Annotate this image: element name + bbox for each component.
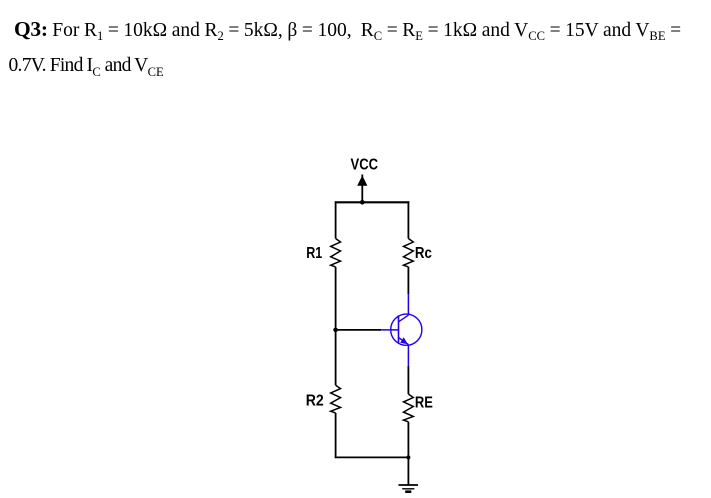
- ground symbol: [399, 485, 419, 492]
- svg-text:Rc: Rc: [415, 245, 432, 262]
- transistor Q1 body circle: [391, 314, 422, 345]
- power VCC arrowhead: [357, 176, 367, 186]
- wire right lower: [407, 422, 409, 458]
- wire bottom bus: [335, 456, 409, 458]
- resistor R2: [331, 385, 341, 413]
- svg-text:R1: R1: [306, 245, 322, 262]
- junction bottom dot: [406, 455, 410, 459]
- svg-text:R2: R2: [306, 392, 324, 409]
- resistor Rc: [404, 239, 414, 267]
- wire base black: [336, 329, 382, 331]
- transistor Q1 emitter diagonal: [399, 337, 409, 344]
- wire to ground: [407, 457, 409, 485]
- wire collector black: [407, 267, 409, 294]
- transistor Q1 collector diagonal: [399, 315, 409, 322]
- junction base dot: [333, 328, 338, 333]
- power VCC arrow stem: [361, 175, 363, 203]
- wire left middle: [335, 267, 337, 385]
- transistor Q1 base lead blue: [381, 329, 398, 331]
- svg-text:VCC: VCC: [351, 157, 379, 174]
- transistor Q1 collector lead blue: [407, 294, 409, 315]
- wire emitter black: [407, 366, 409, 394]
- transistor Q1 emitter lead blue: [407, 345, 409, 366]
- resistor R1: [331, 239, 341, 267]
- wire left upper: [335, 201, 337, 238]
- transistor Q1 emitter arrowhead: [400, 337, 408, 344]
- wire left lower: [335, 413, 337, 458]
- wire top bus: [335, 201, 410, 203]
- svg-text:RE: RE: [415, 395, 433, 412]
- transistor Q1 base bar: [398, 315, 400, 342]
- resistor RE: [404, 394, 414, 422]
- wire right upper: [407, 201, 409, 238]
- junction top dot: [360, 200, 365, 205]
